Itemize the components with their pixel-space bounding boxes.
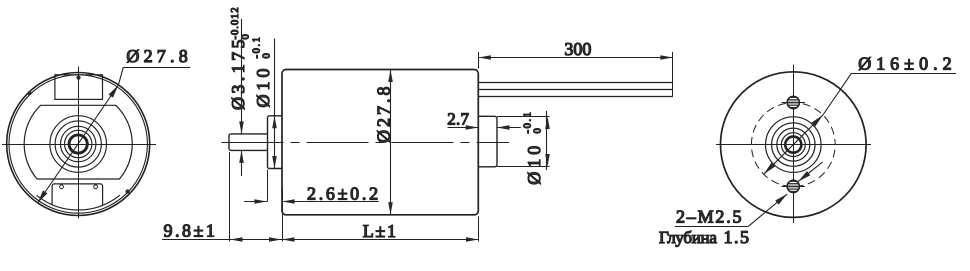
svg-text:Ø27.8: Ø27.8	[126, 46, 191, 66]
svg-text:0: 0	[262, 53, 273, 58]
svg-text:1.5: 1.5	[724, 227, 751, 247]
svg-text:Ø10: Ø10	[253, 65, 273, 108]
svg-text:Глубина: Глубина	[659, 228, 717, 247]
svg-text:-0.1: -0.1	[523, 110, 534, 133]
svg-text:0: 0	[241, 34, 252, 39]
svg-text:-0.012: -0.012	[230, 6, 241, 39]
svg-text:Ø10: Ø10	[524, 142, 544, 185]
svg-text:L±1: L±1	[363, 221, 398, 241]
svg-text:9.8±1: 9.8±1	[164, 221, 218, 241]
svg-text:2.7: 2.7	[447, 110, 469, 129]
svg-text:2–M2.5: 2–M2.5	[676, 206, 743, 226]
svg-text:300: 300	[564, 39, 591, 59]
svg-text:Ø3.175: Ø3.175	[228, 36, 248, 110]
svg-text:Ø27.8: Ø27.8	[374, 84, 394, 144]
svg-text:0: 0	[532, 128, 543, 133]
svg-text:2.6±0.2: 2.6±0.2	[307, 184, 381, 204]
svg-text:-0.1: -0.1	[252, 35, 263, 58]
svg-text:Ø16±0.2: Ø16±0.2	[858, 53, 956, 73]
